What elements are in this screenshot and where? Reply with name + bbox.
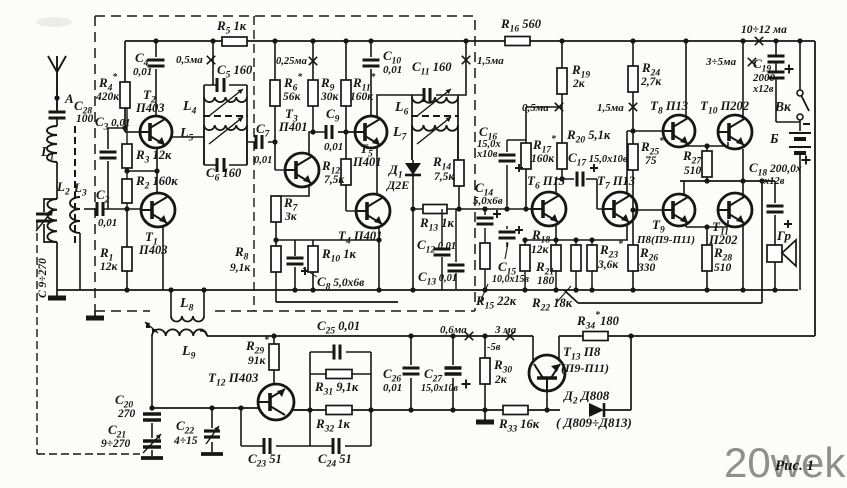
svg-text:75: 75 [645, 155, 657, 167]
capacitor C12 [417, 209, 456, 290]
inductor L9 [152, 329, 207, 361]
transistor T1 [138, 193, 175, 257]
wire C23 net [238, 405, 310, 446]
svg-text:10÷12 ма: 10÷12 ма [741, 24, 787, 36]
current mark 1,5ma a [462, 55, 504, 67]
resistor R15 [475, 243, 517, 312]
svg-text:91к: 91к [248, 355, 267, 367]
wire D1 to ground bus [410, 209, 415, 293]
resistor R28 [702, 227, 732, 293]
loudspeaker Gr [767, 228, 796, 293]
resistor R13 [419, 205, 455, 234]
wire T6 collector [556, 176, 574, 193]
capacitor C17 [568, 150, 628, 209]
svg-text:3,6к: 3,6к [597, 259, 619, 271]
diode D2 [556, 388, 632, 430]
svg-text:А: А [64, 91, 74, 106]
capacitor C20 [115, 336, 161, 438]
current mark 0,5ma b [522, 102, 563, 114]
svg-text:0,25ма: 0,25ма [276, 56, 307, 67]
svg-text:Рис. 1: Рис. 1 [775, 458, 814, 474]
resistor R23 [587, 239, 623, 293]
capacitor C4 [133, 38, 165, 116]
capacitor C11 [412, 59, 458, 102]
capacitor C19 [752, 38, 800, 122]
svg-text:12к: 12к [100, 261, 119, 273]
inductor L6 [394, 89, 458, 160]
transistor T3 [275, 106, 319, 187]
wire T9 collector [683, 181, 685, 196]
wire bottom AF line [152, 336, 631, 410]
battery B [769, 120, 811, 290]
dashed divider line [253, 16, 255, 311]
resistor R1 [99, 209, 132, 293]
capacitor C14 [473, 180, 503, 243]
svg-text:1,5ма: 1,5ма [597, 102, 624, 114]
capacitor C2 [96, 187, 141, 229]
transistor T2 [135, 87, 172, 148]
wire T11 collector [742, 181, 744, 197]
label -5v [487, 342, 501, 353]
svg-text:0,01: 0,01 [133, 66, 152, 78]
svg-text:2,7к: 2,7к [640, 76, 662, 88]
inductor L1 [40, 126, 57, 163]
inductor L3 [70, 180, 87, 290]
diode D1 [386, 160, 421, 209]
inductor L2 [47, 199, 57, 242]
resistor R19 [557, 38, 590, 143]
resistor R8 [230, 244, 281, 302]
resistor R34 [576, 310, 634, 341]
svg-text:9,1к: 9,1к [230, 262, 251, 274]
resistor R30 [480, 333, 512, 412]
capacitor C8 [287, 240, 365, 293]
wire audio supply line [200, 331, 815, 336]
current mark 3-5ma [705, 56, 756, 68]
svg-text:270: 270 [117, 408, 136, 420]
transistor T6 [526, 173, 566, 226]
svg-text:330: 330 [637, 262, 656, 274]
dot node R3-R2 [124, 168, 129, 173]
capacitor C7 [247, 121, 275, 166]
svg-text:0,01: 0,01 [98, 217, 117, 229]
svg-text:7,5к: 7,5к [324, 174, 345, 186]
wire T5 collector to tank2 [377, 95, 412, 118]
svg-text:(П9-П11): (П9-П11) [561, 361, 609, 375]
ground at border [86, 311, 104, 318]
wire right edge vertical [814, 41, 816, 336]
transistor T7 [597, 173, 637, 226]
transistor T10 [700, 98, 752, 149]
resistor R6 [270, 38, 302, 170]
svg-text:0,01: 0,01 [383, 64, 402, 76]
capacitor C26 [383, 333, 420, 412]
svg-text:0,01: 0,01 [324, 141, 343, 153]
antenna [48, 56, 66, 112]
wire T10 emitter [740, 149, 745, 184]
svg-text:510: 510 [714, 262, 732, 274]
wire antenna to frame [56, 162, 70, 199]
supply drop to tank2 [458, 38, 469, 95]
current mark 1,5ma c [597, 102, 637, 114]
coupling arrow [145, 322, 158, 333]
dash-dot tuning gang link [37, 221, 140, 454]
current mark 0,5ma [176, 54, 215, 66]
current mark 10-12ma [741, 24, 787, 45]
dot R7 bottom [273, 237, 278, 242]
resistor R21 [535, 240, 561, 293]
transistor T13 [529, 336, 609, 413]
node A [54, 91, 74, 106]
wire T10 collector [740, 38, 745, 119]
svg-text:Вк: Вк [774, 99, 792, 114]
resistor R14 [432, 154, 464, 209]
dashed border of HF block [95, 16, 475, 311]
wire emitters T6 T7 [522, 225, 628, 243]
svg-text:4÷15: 4÷15 [173, 435, 198, 447]
resistor R31 [314, 370, 359, 398]
transistor T4 [338, 194, 390, 247]
figure caption [775, 458, 814, 474]
variable capacitor C21 [101, 422, 163, 458]
svg-text:Б: Б [769, 131, 779, 146]
svg-text:0,5ма: 0,5ма [176, 54, 203, 66]
current mark 3ma [494, 324, 517, 340]
transistor T8 [650, 98, 695, 147]
resistor R33 [498, 406, 540, 435]
variable capacitor C1 frame [36, 199, 57, 290]
svg-text:160к: 160к [531, 153, 555, 165]
svg-text:56к: 56к [283, 91, 302, 103]
feedback ladder [307, 345, 373, 447]
svg-text:Д2Е: Д2Е [386, 178, 409, 192]
capacitor C16 [476, 124, 526, 212]
svg-text:10,0х15в: 10,0х15в [492, 274, 530, 285]
wire L3 to C2 [84, 208, 97, 210]
capacitor C28 [49, 98, 94, 126]
transistor T11 [708, 193, 752, 247]
inductor L5 [179, 117, 247, 165]
svg-text:9÷270: 9÷270 [101, 438, 131, 450]
svg-text:510: 510 [684, 165, 702, 177]
transistor T12 [208, 370, 294, 420]
svg-text:420к: 420к [95, 91, 120, 103]
watermark [724, 439, 846, 486]
wire T2 base [125, 131, 140, 133]
capacitor C15 [492, 226, 530, 285]
wire T11 emitter [740, 224, 745, 293]
inductor L4 [182, 85, 247, 165]
wire T3 collector [309, 129, 316, 154]
svg-text:15,0х10в: 15,0х10в [421, 383, 459, 394]
dot T1 base node [124, 206, 129, 211]
svg-text:х12в: х12в [752, 84, 774, 95]
svg-text:х10в: х10в [476, 149, 498, 160]
resistor R11 [341, 38, 376, 134]
wire ground bus [57, 289, 798, 291]
resistor R27 [682, 146, 712, 184]
wire output node [680, 178, 775, 183]
wire T2 emitter to T1 collector [127, 148, 160, 193]
resistor R24 [628, 38, 662, 131]
resistor R9 [308, 38, 340, 132]
svg-text:( Д809÷Д813): ( Д809÷Д813) [556, 415, 632, 430]
label C1 9-270 [37, 258, 49, 298]
resistor R16 [500, 16, 542, 46]
wire T12 emitter [292, 409, 310, 411]
capacitor C24 [310, 438, 371, 470]
wire T1 emitter [162, 226, 164, 290]
inductor L8 [168, 287, 206, 321]
wire T9 emitter to T11 base [686, 220, 728, 230]
capacitor C6 [204, 158, 247, 184]
resistor R20 [557, 127, 611, 179]
capacitor C22 [173, 405, 223, 454]
transistor T9 [633, 194, 695, 246]
svg-text:3к: 3к [284, 211, 298, 223]
svg-text:0,01: 0,01 [254, 155, 272, 166]
current mark 0,6ma [440, 324, 473, 340]
inductor L7 [392, 117, 458, 160]
ground at antenna [48, 290, 66, 298]
wire T7 collector [627, 128, 662, 193]
resistor R5 [216, 18, 247, 46]
ground at R30 [476, 410, 494, 422]
resistor R18 [520, 227, 550, 293]
transistor T5 [338, 116, 387, 169]
svg-text:C 9÷270: C 9÷270 [37, 258, 49, 298]
capacitor C27 [421, 333, 471, 412]
svg-text:2к: 2к [572, 78, 586, 90]
svg-text:0,6ма: 0,6ма [440, 324, 467, 336]
resistor R29 [245, 333, 279, 384]
wire tank1 to bus [210, 38, 215, 85]
resistor R12 [321, 132, 351, 211]
wire T2 collector to tank [172, 136, 204, 138]
resistor R25 [628, 131, 664, 213]
svg-text:2к: 2к [494, 374, 508, 386]
capacitor C3 [95, 114, 130, 209]
svg-text:7,5к: 7,5к [434, 171, 455, 183]
svg-text:1,5ма: 1,5ма [477, 55, 504, 67]
resistor R3 [122, 108, 172, 179]
svg-text:0,01: 0,01 [383, 382, 402, 394]
wire detector line [410, 206, 532, 211]
svg-text:30к: 30к [320, 91, 340, 103]
svg-text:х12в: х12в [763, 176, 785, 187]
capacitor C5 [204, 62, 253, 92]
svg-text:П403: П403 [135, 101, 164, 115]
wire T8 emitter to T10 base [686, 142, 728, 149]
capacitor C18 [749, 160, 802, 245]
resistor R32 [315, 406, 352, 435]
resistor R22 [531, 240, 581, 314]
svg-text:Гр: Гр [776, 228, 791, 243]
tank2 core dashes [411, 115, 459, 117]
svg-text:5,0х6в: 5,0х6в [473, 195, 503, 207]
svg-text:-5в: -5в [487, 342, 501, 353]
svg-text:12к: 12к [531, 244, 550, 256]
svg-text:180: 180 [537, 275, 555, 287]
resistor R10 [308, 240, 357, 293]
svg-text:100: 100 [76, 113, 94, 125]
wire return line [276, 181, 762, 303]
wire top supply bus [125, 40, 815, 42]
capacitor C23 [248, 438, 282, 470]
wire T8 collector [683, 38, 688, 117]
current mark 0,25ma [276, 56, 317, 67]
svg-text:2000: 2000 [752, 72, 776, 84]
svg-text:3 ма: 3 ма [494, 324, 517, 336]
ferrite core dashes [74, 126, 76, 244]
resistor R4 [95, 41, 130, 132]
capacitor C10 [363, 38, 403, 116]
svg-text:3÷5ма: 3÷5ма [705, 56, 737, 68]
capacitor C9 [313, 106, 355, 153]
resistor R17 [521, 107, 562, 212]
wire T5 emitter to T4 [376, 146, 378, 195]
wire T4 emitter net [276, 226, 382, 293]
resistor R7 [271, 186, 309, 246]
resistor R2 [122, 173, 178, 209]
svg-text:П401: П401 [278, 120, 307, 134]
capacitor C13 [418, 209, 465, 290]
resistor R26 [628, 210, 658, 293]
dot R4 bottom [122, 125, 127, 130]
label C25 [317, 318, 360, 337]
switch Vk [774, 38, 809, 120]
tank core dashes [203, 115, 248, 117]
